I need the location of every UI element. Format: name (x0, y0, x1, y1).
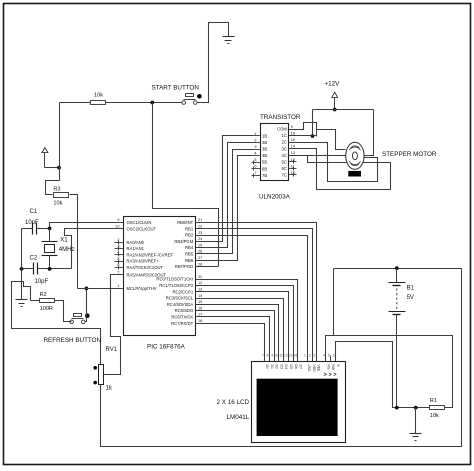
wire RV1 wiper to RA5 (104, 275, 124, 375)
ground (caps) (16, 300, 28, 307)
wire 2C to motor right-bottom (289, 143, 378, 182)
wire C1 left (22, 228, 33, 230)
svg-text:X1: X1 (60, 238, 68, 244)
wire RC to LCD data (196, 305, 279, 362)
svg-text:RA4/T0CKI/C1OUT: RA4/T0CKI/C1OUT (127, 265, 164, 270)
wire OSC2 (65, 229, 124, 269)
wire RB to LCD (196, 236, 308, 362)
svg-text:16: 16 (198, 306, 202, 310)
svg-text:1C: 1C (282, 133, 287, 138)
crystal X1 4MHz (42, 229, 75, 269)
wire 4C branch lower-left (308, 156, 348, 163)
svg-text:C1: C1 (30, 209, 38, 215)
wire RC to LCD data (196, 286, 294, 362)
wire RB to ULN (196, 136, 253, 242)
ULN pins 1B-4B stubs (253, 136, 261, 156)
wire +12V rail (313, 109, 374, 111)
svg-text:RS: RS (326, 365, 330, 370)
svg-text:RC4/SDI/SDA: RC4/SDI/SDA (167, 302, 194, 307)
wire R2 to refresh button (55, 301, 72, 322)
svg-text:D6: D6 (294, 365, 298, 369)
svg-text:RC6/TX/CK: RC6/TX/CK (171, 315, 193, 320)
ground (start button) (223, 37, 235, 44)
svg-text:START BUTTON: START BUTTON (152, 85, 200, 92)
svg-text:REFRESH BUTTON: REFRESH BUTTON (44, 337, 102, 344)
svg-text:10pF: 10pF (35, 279, 49, 285)
junction 1C (311, 134, 315, 138)
svg-text:VSS: VSS (307, 365, 311, 373)
svg-text:2: 2 (309, 354, 311, 358)
wire VCC loop to R2 (12, 282, 101, 365)
svg-text:10: 10 (115, 225, 119, 229)
wire RC to LCD data (196, 299, 284, 362)
PIC pins RA0-RA4 unconnected stubs (115, 241, 124, 270)
svg-text:RB2: RB2 (185, 233, 194, 238)
svg-text:2: 2 (254, 138, 256, 142)
svg-text:D5: D5 (289, 365, 293, 369)
svg-text:7B: 7B (262, 173, 267, 178)
wire RC to LCD data (196, 311, 275, 362)
svg-text:10k: 10k (53, 200, 62, 206)
svg-text:13: 13 (289, 354, 293, 358)
wire rail drop (312, 110, 314, 137)
power +12V (325, 81, 341, 110)
capacitor C1 10pF (25, 209, 39, 235)
wire 10k to start button (106, 102, 182, 104)
power arrow +5V (42, 148, 48, 168)
wire RB to ULN (196, 156, 253, 261)
wire start button to ground (198, 23, 229, 103)
PIC left pin labels (115, 218, 173, 291)
wire RB7 (196, 266, 219, 268)
svg-text:11: 11 (291, 164, 295, 168)
svg-text:R1: R1 (430, 398, 437, 404)
svg-text:11: 11 (198, 275, 202, 279)
wire RB to ULN (196, 143, 253, 248)
wire OSC1 (50, 223, 124, 229)
svg-text:18: 18 (198, 319, 202, 323)
svg-text:LM041L: LM041L (227, 414, 250, 421)
wire C2 to crystal bottom (38, 268, 72, 270)
svg-text:PIC 16F876A: PIC 16F876A (147, 344, 186, 351)
svg-text:6: 6 (254, 165, 256, 169)
svg-text:D1: D1 (270, 365, 274, 369)
svg-text:28: 28 (198, 262, 202, 266)
ground (battery) (410, 434, 422, 441)
svg-text:1k: 1k (106, 386, 113, 392)
LCD pin labels (265, 365, 340, 376)
wire MCLR (78, 288, 124, 290)
svg-text:1: 1 (304, 354, 306, 358)
svg-text:6: 6 (333, 354, 335, 358)
svg-text:3C: 3C (282, 146, 287, 151)
svg-text:OSC2/CLKOUT: OSC2/CLKOUT (127, 226, 157, 231)
resistor R1 10k (430, 398, 445, 419)
svg-text:3: 3 (313, 354, 315, 358)
wire refresh button to MCLR (86, 289, 87, 322)
junction MCLR (85, 287, 89, 291)
stepper motor M1 (346, 142, 437, 176)
wire cap ground rail (21, 229, 23, 300)
svg-text:RB0/INT: RB0/INT (177, 220, 193, 225)
resistor 10k pull-up (91, 101, 106, 105)
wire B1 top rail (334, 268, 462, 270)
svg-text:5B: 5B (262, 160, 267, 165)
svg-text:C2: C2 (30, 256, 38, 262)
svg-text:R3: R3 (53, 186, 60, 192)
svg-text:100R: 100R (40, 306, 53, 312)
svg-text:VDD: VDD (312, 365, 316, 373)
svg-text:3: 3 (254, 145, 256, 149)
wire RC to LCD data (196, 280, 298, 362)
svg-text:RB4: RB4 (185, 245, 194, 250)
junction (57, 166, 61, 170)
LCD display LM041L (217, 362, 346, 443)
svg-text:B1: B1 (407, 285, 415, 291)
svg-text:25: 25 (198, 243, 202, 247)
battery B1 5V (389, 269, 415, 408)
svg-text:9: 9 (291, 125, 293, 129)
svg-text:4B: 4B (262, 153, 267, 158)
svg-text:6C: 6C (282, 166, 287, 171)
junction C2 ground (20, 267, 24, 271)
capacitor C2 10pF (30, 256, 49, 285)
svg-text:16: 16 (291, 132, 295, 136)
svg-text:RB1: RB1 (185, 226, 194, 231)
svg-text:12: 12 (284, 354, 288, 358)
svg-text:27: 27 (198, 256, 202, 260)
svg-text:R2: R2 (40, 292, 47, 298)
svg-text:5C: 5C (282, 159, 287, 164)
wire RC to LCD data (196, 292, 289, 362)
svg-text:5: 5 (328, 354, 330, 358)
wire 1C (289, 135, 317, 137)
svg-text:RC1/T1OSI/CCP2: RC1/T1OSI/CCP2 (159, 283, 194, 288)
svg-text:7C: 7C (282, 172, 287, 177)
svg-text:D3: D3 (279, 365, 283, 369)
svg-text:12: 12 (198, 281, 202, 285)
svg-text:23: 23 (198, 231, 202, 235)
svg-text:RC0/T1OSO/T1CKI: RC0/T1OSO/T1CKI (156, 277, 193, 282)
svg-text:RC3/SCK/SCL: RC3/SCK/SCL (166, 296, 194, 301)
svg-text:VEE: VEE (317, 365, 321, 373)
svg-text:D7: D7 (298, 365, 302, 369)
svg-text:14: 14 (198, 294, 202, 298)
svg-text:6B: 6B (262, 166, 267, 171)
svg-text:8: 8 (267, 354, 269, 358)
svg-text:D4: D4 (284, 365, 288, 369)
svg-text:13: 13 (291, 151, 295, 155)
svg-text:RW: RW (331, 365, 335, 371)
wire VDD loop (326, 336, 453, 408)
svg-text:RC2/CCP1: RC2/CCP1 (172, 289, 193, 294)
svg-text:22: 22 (198, 225, 202, 229)
junction crystal top (48, 227, 52, 231)
wire power to node (45, 167, 60, 169)
wire +12V to motor right-top (364, 110, 374, 156)
junction start node (150, 101, 154, 105)
wire C1 to crystal (37, 228, 50, 230)
wire RB to LCD (196, 223, 317, 362)
ULN left pin labels (254, 132, 267, 178)
ULN pins 5B-7B stubs (252, 161, 261, 178)
svg-text:5V: 5V (407, 295, 414, 301)
wire VSS loop (336, 342, 430, 408)
wire RC to LCD data (196, 317, 270, 362)
svg-text:RA2/AN2/VREF-/CVREF: RA2/AN2/VREF-/CVREF (127, 252, 174, 257)
svg-text:2B: 2B (262, 140, 267, 145)
wire ground drop (415, 408, 417, 434)
svg-text:RB6: RB6 (185, 258, 194, 263)
svg-text:10k: 10k (94, 92, 103, 98)
svg-text:9: 9 (117, 218, 119, 222)
svg-text:COM: COM (277, 127, 287, 132)
wire COM (289, 123, 317, 137)
svg-text:D0: D0 (265, 365, 269, 369)
wire start node to RB7 (153, 103, 219, 267)
svg-text:D2: D2 (275, 365, 279, 369)
transistor array U2 ULN2003A (259, 114, 301, 200)
svg-text:4: 4 (323, 354, 325, 358)
svg-text:RV1: RV1 (106, 347, 118, 353)
svg-text:7: 7 (117, 271, 119, 275)
svg-text:TRANSISTOR: TRANSISTOR (260, 114, 301, 121)
wire to R3 (46, 181, 60, 195)
resistor R2 100R (40, 292, 55, 312)
svg-text:+12V: +12V (325, 81, 341, 88)
svg-text:7: 7 (262, 354, 264, 358)
wire RV1 bottom loop (101, 269, 462, 447)
svg-text:10: 10 (274, 354, 278, 358)
junction R1 ground (414, 406, 418, 410)
svg-text:2 X 16 LCD: 2 X 16 LCD (217, 399, 250, 406)
junction crystal bottom (48, 267, 52, 271)
svg-text:RB7/PGD: RB7/PGD (175, 264, 193, 269)
wire 3C loop (289, 149, 391, 190)
wire to motor left-top (317, 130, 346, 150)
wire VCC to 10k (60, 102, 91, 104)
wire B1 rail left drop (333, 269, 335, 336)
refresh button (70, 313, 90, 323)
svg-text:RA1/AN1: RA1/AN1 (127, 246, 145, 251)
microcontroller U1 PIC16F876A (124, 217, 196, 351)
svg-text:1B: 1B (262, 134, 267, 139)
svg-text:RC5/SDO: RC5/SDO (175, 308, 194, 313)
svg-text:2C: 2C (282, 140, 287, 145)
svg-text:MCLR/Vpp/THV: MCLR/Vpp/THV (127, 286, 157, 291)
svg-text:14: 14 (293, 354, 297, 358)
svg-text:RA0/AN0: RA0/AN0 (127, 240, 145, 245)
LCD pin numbers (262, 354, 335, 358)
svg-text:13: 13 (198, 288, 202, 292)
wire vertical VCC rail (59, 103, 61, 181)
svg-text:OSC1/CLKIN: OSC1/CLKIN (127, 220, 152, 225)
svg-text:10k: 10k (430, 413, 439, 419)
svg-text:10pF: 10pF (25, 220, 39, 226)
ULN pins 5C-7C stubs (289, 160, 297, 177)
junction +12V rail (333, 108, 337, 112)
svg-text:ULN2003A: ULN2003A (259, 194, 291, 201)
svg-text:4MHz: 4MHz (59, 247, 75, 253)
junction B1 minus (395, 406, 399, 410)
svg-text:24: 24 (198, 237, 202, 241)
wire R3 to MCLR (70, 195, 78, 289)
svg-text:RB5: RB5 (185, 252, 194, 257)
svg-text:15: 15 (198, 300, 202, 304)
wire 4C to motor left (289, 155, 346, 157)
svg-text:1: 1 (117, 284, 119, 288)
PIC right pin labels (156, 218, 202, 326)
svg-text:RC7/RX/DT: RC7/RX/DT (171, 321, 194, 326)
ULN right pin labels (277, 125, 295, 177)
svg-text:5: 5 (254, 158, 256, 162)
resistor R3 10k (53, 186, 68, 206)
svg-text:RA3/AN3/VREF+: RA3/AN3/VREF+ (127, 259, 160, 264)
junction B1 top (395, 266, 399, 270)
svg-text:15: 15 (291, 138, 295, 142)
svg-text:21: 21 (198, 218, 202, 222)
potentiometer RV1 1k (93, 347, 117, 392)
LCD RW stub (330, 356, 332, 362)
svg-text:4C: 4C (282, 153, 287, 158)
wire RB to LCD (196, 229, 313, 362)
wire RC to LCD data (196, 324, 265, 362)
svg-text:RB3/PGM: RB3/PGM (174, 239, 193, 244)
svg-text:3B: 3B (262, 147, 267, 152)
svg-text:STEPPER MOTOR: STEPPER MOTOR (382, 151, 437, 158)
svg-text:7: 7 (254, 171, 256, 175)
svg-text:9: 9 (271, 354, 273, 358)
start button (182, 94, 202, 105)
wire RB to ULN (196, 150, 253, 254)
svg-text:11: 11 (279, 354, 283, 358)
wire C2 left (22, 268, 34, 270)
svg-text:4: 4 (254, 152, 256, 156)
